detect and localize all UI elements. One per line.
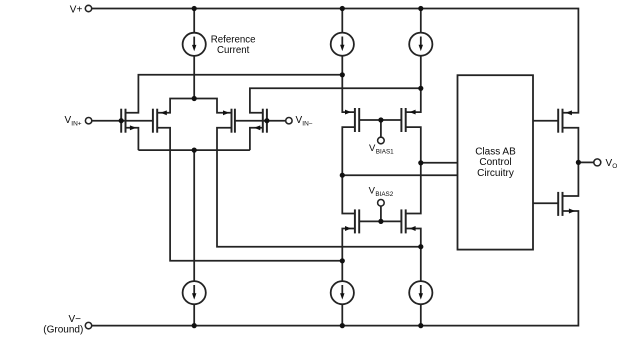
svg-text:V+: V+ (70, 4, 83, 15)
svg-text:(Ground): (Ground) (43, 324, 83, 335)
svg-text:Control: Control (479, 157, 511, 168)
svg-text:Reference: Reference (211, 35, 256, 46)
svg-text:Class AB: Class AB (475, 146, 516, 157)
svg-text:BIAS2: BIAS2 (375, 191, 393, 198)
svg-text:BIAS1: BIAS1 (376, 148, 394, 155)
svg-text:O: O (612, 163, 617, 170)
svg-text:Circuitry: Circuitry (477, 168, 514, 179)
svg-text:IN+: IN+ (71, 121, 82, 128)
svg-text:IN−: IN− (302, 121, 313, 128)
svg-text:Current: Current (217, 45, 250, 56)
